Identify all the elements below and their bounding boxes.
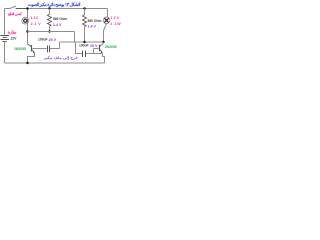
svg-text:12V: 12V	[111, 16, 120, 20]
microphone M1	[22, 17, 29, 24]
capacitor C1 100uF	[48, 46, 50, 53]
node dot R2 bottom	[83, 41, 85, 43]
wire lamp to collector node	[104, 24, 107, 42]
battery B1 12V	[1, 36, 10, 42]
wire right drop	[107, 9, 109, 18]
resistor R1 560 Ohm	[48, 9, 52, 32]
background	[0, 0, 121, 67]
wire top rail	[16, 8, 108, 10]
wire cap right lead	[50, 48, 60, 50]
wire dark segment after switch	[16, 8, 28, 10]
transistor Q1 2N3055	[28, 44, 35, 53]
svg-text:100uF: 100uF	[79, 44, 89, 48]
wire microphone branch	[27, 9, 29, 45]
svg-text:25 V: 25 V	[90, 44, 98, 48]
svg-text:1.4 V: 1.4 V	[53, 23, 62, 27]
svg-text:25 V: 25 V	[49, 38, 57, 42]
wire Q2 base tap	[94, 49, 99, 54]
wire bias line y31	[28, 31, 75, 33]
svg-text:2.1 V: 2.1 V	[31, 22, 42, 26]
wire C2 right lead	[86, 53, 102, 55]
node dot Q2 collector	[102, 41, 104, 43]
wire cap left lead to T1 base	[33, 48, 47, 50]
wire left rail upper	[4, 9, 6, 35]
wire Q2 emitter staircase	[103, 53, 105, 63]
svg-text:1.4 V: 1.4 V	[88, 24, 97, 28]
node dot top-right	[83, 7, 85, 9]
svg-text:2.1W: 2.1W	[110, 22, 121, 26]
lamp L1	[103, 17, 110, 24]
wire top rail left stub	[5, 8, 11, 10]
svg-text:2N3055: 2N3055	[14, 47, 26, 51]
svg-text:2N3055: 2N3055	[105, 45, 117, 49]
svg-text:560 Ohm: 560 Ohm	[53, 17, 67, 21]
wire Q1 emitter staircase	[28, 53, 35, 64]
node dot top-left	[26, 7, 28, 9]
wire mid rail y41.5	[60, 41, 104, 43]
capacitor C2 100uF	[83, 51, 86, 58]
svg-text:100uF: 100uF	[38, 38, 48, 42]
node dot bottom rail	[26, 62, 28, 64]
svg-text:1.1V: 1.1V	[31, 16, 39, 20]
switch SW1 lever	[10, 6, 16, 9]
svg-text:560 Ohm: 560 Ohm	[88, 19, 102, 23]
svg-text:12V: 12V	[10, 37, 17, 41]
wire C2 feed from mid rail	[76, 42, 83, 54]
transistor Q2 2N3055	[100, 42, 104, 53]
node dot mic/base junction	[26, 30, 28, 32]
wire bottom rail	[5, 62, 105, 64]
wire step down to cap	[59, 42, 61, 49]
wire bias drop x74	[74, 32, 76, 43]
node dot R1 bottom	[48, 30, 50, 32]
resistor R2 560 Ohm	[83, 9, 87, 43]
wire left rail lower	[4, 42, 6, 64]
node dot top-mid	[48, 7, 50, 9]
